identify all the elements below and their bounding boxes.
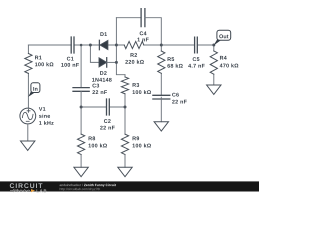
node junction dots [80,44,216,109]
wire node line C4-left / diode cathodes / R3 top [116,18,125,75]
label R9 [133,136,151,147]
label R2 [125,53,144,64]
wire D2 branch right [107,61,117,63]
capacitor C2 [107,99,110,115]
diode D2 [99,58,107,67]
wire C6 to ground [160,97,162,122]
wire C3 branch from top rail [80,45,82,88]
ground for C6 [154,122,168,131]
ground for R4 [207,85,221,94]
label C1 [61,57,79,67]
wire main top rail [28,44,213,46]
label D1 [100,32,107,36]
label R1 [35,56,53,67]
capacitor C1 [71,37,74,53]
footer bar [0,181,259,191]
label C2 [100,119,115,129]
wire lower rail [81,106,125,108]
wire R1 to V1 [27,76,29,108]
wire D2 branch left [90,45,99,62]
wire C3 to lower rail [80,91,82,107]
resistor R5 [160,45,162,95]
label D2 [92,71,112,82]
label R5 [167,57,182,67]
ground for R9 [118,167,132,176]
wire V1 to ground [27,124,29,141]
capacitor C4 [141,9,145,27]
ground for V1 [21,141,35,150]
footer credit text [60,184,116,191]
label R4 [220,56,239,68]
resistor R3 [124,75,126,107]
label C6 [172,93,187,104]
label R3 [133,83,151,94]
label R8 [89,136,107,147]
wire C4 top right elbow [145,18,161,45]
capacitor C3 [73,88,89,92]
resistor R2 [124,41,144,48]
label V1 [39,107,54,125]
flag Out [214,30,231,45]
resistor R4 [213,45,215,85]
flag In [28,83,40,97]
label C5 [188,57,204,67]
ground for R8 [74,167,88,176]
wire C4 top left elbow [116,17,141,19]
diode D1 [99,40,108,49]
capacitor C6 [153,95,170,99]
voltage source V1 [20,108,36,124]
label C4 [137,31,148,41]
label C3 [92,84,107,94]
resistor R9 [124,107,126,167]
resistor R1 [27,45,29,76]
resistor R8 [80,107,82,167]
capacitor C5 [195,37,198,53]
footer logo CIRCUIT LAB [10,183,47,192]
